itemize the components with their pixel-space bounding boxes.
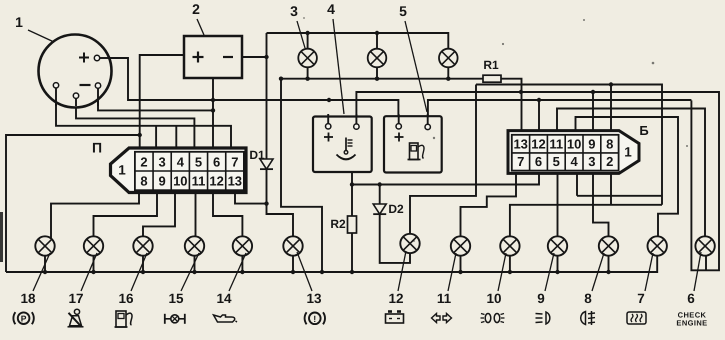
svg-text:1: 1	[15, 14, 23, 30]
svg-text:12: 12	[388, 291, 403, 306]
svg-text:14: 14	[216, 291, 232, 306]
svg-text:3: 3	[588, 154, 595, 169]
svg-text:2: 2	[606, 154, 613, 169]
svg-text:10: 10	[567, 136, 581, 151]
svg-text:!: !	[313, 314, 316, 324]
svg-text:13: 13	[513, 136, 527, 151]
svg-text:5: 5	[195, 155, 202, 170]
svg-text:D1: D1	[249, 148, 265, 162]
svg-text:3: 3	[290, 3, 298, 19]
svg-text:13: 13	[306, 291, 322, 306]
svg-text:7: 7	[517, 154, 524, 169]
svg-text:П: П	[92, 140, 102, 156]
svg-text:11: 11	[437, 291, 452, 306]
svg-text:4: 4	[570, 154, 578, 169]
svg-text:1: 1	[118, 163, 126, 178]
svg-text:R1: R1	[483, 58, 499, 72]
svg-text:P: P	[21, 314, 27, 324]
svg-text:4: 4	[177, 155, 185, 170]
svg-text:ENGINE: ENGINE	[676, 319, 707, 328]
svg-text:11: 11	[192, 174, 206, 189]
svg-text:9: 9	[537, 291, 545, 306]
svg-text:R2: R2	[330, 217, 346, 231]
svg-text:12: 12	[531, 136, 545, 151]
svg-text:9: 9	[159, 174, 166, 189]
svg-text:9: 9	[588, 136, 595, 151]
svg-text:5: 5	[399, 3, 407, 19]
svg-text:16: 16	[118, 291, 134, 306]
svg-text:8: 8	[606, 136, 613, 151]
svg-text:6: 6	[213, 155, 220, 170]
svg-text:15: 15	[168, 291, 184, 306]
svg-text:Б: Б	[639, 123, 648, 138]
svg-text:11: 11	[549, 136, 563, 151]
svg-text:12: 12	[209, 174, 223, 189]
svg-text:5: 5	[553, 154, 560, 169]
svg-text:3: 3	[159, 155, 166, 170]
svg-text:10: 10	[486, 291, 501, 306]
svg-text:1: 1	[624, 145, 632, 160]
svg-text:2: 2	[140, 155, 147, 170]
svg-text:8: 8	[140, 174, 147, 189]
svg-text:6: 6	[535, 154, 542, 169]
svg-text:D2: D2	[388, 202, 404, 216]
svg-text:7: 7	[231, 155, 238, 170]
svg-text:18: 18	[20, 291, 36, 306]
svg-text:2: 2	[192, 1, 200, 17]
svg-text:4: 4	[327, 1, 335, 17]
svg-text:13: 13	[228, 174, 242, 189]
svg-text:6: 6	[687, 291, 695, 306]
svg-text:8: 8	[584, 291, 592, 306]
svg-text:10: 10	[173, 174, 187, 189]
svg-text:7: 7	[637, 291, 645, 306]
svg-text:17: 17	[68, 291, 83, 306]
